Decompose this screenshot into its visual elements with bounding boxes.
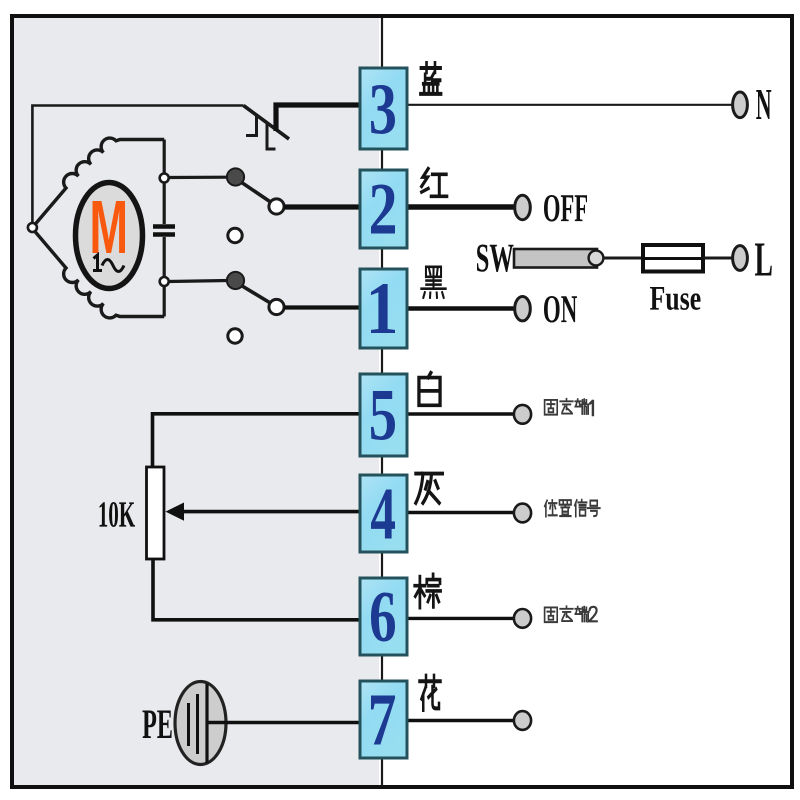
limit switch B (lower) <box>227 272 284 343</box>
fuse F1 <box>643 245 703 272</box>
thick wire switch A to terminal 2 <box>284 204 360 209</box>
label bai (white) <box>419 373 440 406</box>
lug circle row5 <box>514 405 531 424</box>
pot wiper arrow from terminal 4 <box>166 503 361 521</box>
L label <box>755 244 772 276</box>
motor winding upper coil <box>32 138 164 227</box>
terminal block 1 <box>360 269 407 348</box>
terminal block 2 <box>360 170 407 248</box>
lug circle row6 <box>514 609 531 628</box>
node: motor left vertex <box>28 223 37 232</box>
limit switch A (upper) <box>227 168 284 242</box>
wire: lower tap to switch B common <box>169 281 228 282</box>
motor right bus vertical wire <box>163 140 166 317</box>
SW switch bar <box>514 249 603 268</box>
ON label <box>544 296 577 323</box>
PE ground symbol <box>175 682 226 765</box>
thermal switch blade <box>244 106 290 150</box>
label hong (red) <box>422 169 447 197</box>
10K label <box>100 502 136 527</box>
potentiometer 10K body <box>147 467 165 559</box>
wire terminal 5 to pot top <box>153 414 361 467</box>
wire PE to terminal 7 <box>207 721 360 725</box>
label hui (gray) <box>416 474 443 503</box>
label guding-duan2 (fixed end 2) <box>545 606 598 622</box>
lug circle row7 <box>514 711 531 730</box>
wire terminal 2 to OFF <box>407 204 515 209</box>
label zong (brown) <box>415 574 441 607</box>
terminal block 6 <box>360 578 407 655</box>
OFF terminal circle <box>515 195 531 219</box>
label guding-duan1 (fixed end 1) <box>545 399 593 416</box>
terminal block 3 <box>360 68 407 149</box>
PE label <box>143 711 172 739</box>
Fuse label <box>650 287 701 310</box>
lug circle row4 <box>514 504 531 523</box>
terminal block 7 <box>360 681 407 758</box>
terminal block 4 <box>360 475 407 552</box>
left gray panel <box>13 16 379 787</box>
terminal block 5 <box>360 374 407 456</box>
node: lower motor tap <box>160 277 169 286</box>
thick wire thermal switch to terminal 3 <box>276 105 360 131</box>
label lan (blue) <box>420 63 441 94</box>
N label <box>756 90 771 119</box>
N terminal circle <box>733 92 748 118</box>
wire SW to fuse <box>603 257 643 260</box>
label hei (black) <box>421 267 445 298</box>
motor winding lower coil <box>32 229 164 318</box>
wire terminal 7 right to lug <box>407 719 515 722</box>
ON terminal circle <box>515 297 531 321</box>
wire fuse to L <box>703 257 733 260</box>
wire terminal 5 right to lug <box>407 412 515 415</box>
wire terminal 1 to ON <box>407 306 515 310</box>
wire switch B to terminal 1 <box>284 305 360 309</box>
wire pot bottom to terminal 6 <box>153 559 360 620</box>
wire: motor top loop to thermal switch (thin) <box>32 106 243 228</box>
label weizhi-xinhao (position signal) <box>545 500 600 517</box>
terminal bus vertical link line <box>381 18 383 786</box>
SW label <box>477 245 514 273</box>
motor M1 body <box>76 183 143 289</box>
wire terminal 6 right to lug <box>407 617 515 620</box>
OFF label <box>544 195 587 222</box>
wire: terminal 3 to N (thin) <box>407 104 732 106</box>
wire: upper tap to switch A common <box>169 176 228 180</box>
L terminal circle <box>733 246 748 271</box>
node: upper motor tap <box>160 174 169 183</box>
label hua (multicolor) <box>420 676 441 710</box>
wire terminal 4 right to lug <box>407 511 515 514</box>
capacitor C <box>153 227 175 235</box>
